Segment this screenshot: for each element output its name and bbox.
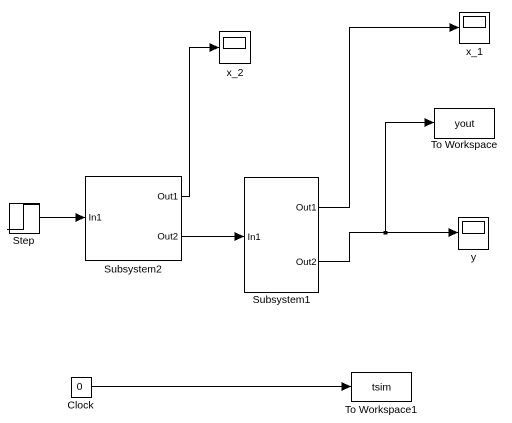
wire Subsystem1 Out1 to scope x_1 bbox=[319, 23, 460, 208]
svg-text:Subsystem2: Subsystem2 bbox=[104, 264, 162, 276]
junction node at branch to To Workspace bbox=[384, 231, 388, 235]
svg-text:y: y bbox=[471, 252, 477, 264]
scope x_1 bbox=[460, 13, 490, 44]
svg-text:yout: yout bbox=[455, 118, 475, 130]
scope x_2 bbox=[220, 32, 251, 64]
svg-text:x_2: x_2 bbox=[227, 67, 244, 79]
svg-text:Out1: Out1 bbox=[296, 203, 317, 214]
clock source Clock bbox=[72, 378, 92, 398]
svg-text:Subsystem1: Subsystem1 bbox=[253, 294, 311, 306]
svg-text:In1: In1 bbox=[89, 213, 102, 224]
svg-text:Clock: Clock bbox=[67, 400, 94, 412]
svg-text:Out1: Out1 bbox=[157, 192, 178, 203]
step source Step bbox=[7, 204, 40, 234]
to-workspace block tsim bbox=[352, 373, 412, 402]
svg-text:Out2: Out2 bbox=[157, 232, 178, 243]
to-workspace block yout bbox=[435, 109, 495, 139]
svg-text:To Workspace1: To Workspace1 bbox=[345, 404, 417, 416]
wire Subsystem1 Out2 to scope y bbox=[319, 228, 459, 262]
svg-text:Step: Step bbox=[13, 235, 35, 247]
svg-text:Out2: Out2 bbox=[296, 257, 317, 268]
wire Subsystem2 Out2 to Subsystem1 In1 bbox=[182, 232, 245, 241]
svg-text:tsim: tsim bbox=[372, 382, 392, 394]
wire branch to To Workspace yout bbox=[386, 118, 435, 233]
wire Clock to To Workspace1 tsim bbox=[92, 382, 352, 391]
svg-text:0: 0 bbox=[77, 381, 83, 393]
scope y bbox=[459, 218, 489, 250]
svg-text:x_1: x_1 bbox=[466, 46, 483, 58]
wire Subsystem2 Out1 to scope x_2 bbox=[182, 43, 220, 197]
subsystem U1 Subsystem2 bbox=[86, 177, 182, 261]
subsystem U2 Subsystem1 bbox=[245, 178, 319, 293]
wire Step to Subsystem2 In1 bbox=[40, 213, 86, 222]
svg-text:To Workspace: To Workspace bbox=[431, 139, 497, 151]
svg-text:In1: In1 bbox=[248, 232, 261, 243]
